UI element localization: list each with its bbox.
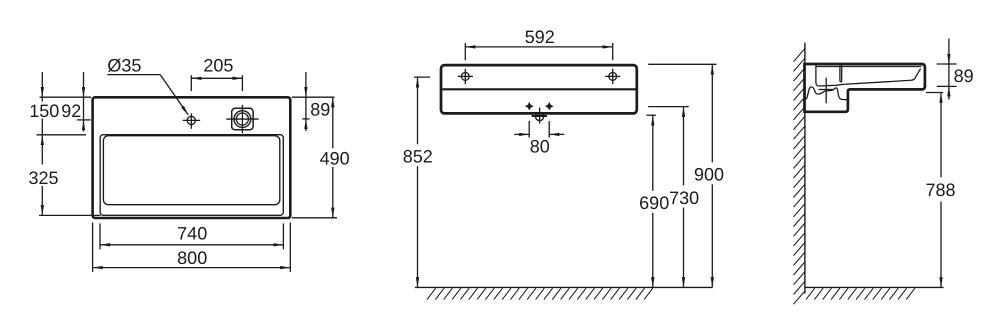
- drain outlet: flange bar, circle and center line: [532, 115, 547, 117]
- dimension 150 (top edge to basin) arrows outside: [41, 72, 43, 97]
- left view: basin floor edge: [103, 136, 279, 205]
- left view: basin rim inner edge: [100, 135, 283, 216]
- dimension 690 (drain above floor): [646, 114, 656, 116]
- dimension 80 (bolt spacing) arrows outside: [528, 121, 530, 138]
- middle view floor line: [415, 286, 713, 288]
- svg-text:788: 788: [925, 180, 955, 200]
- right view: wall hatching: [794, 49, 805, 305]
- middle view: washbasin front elevation outline: [441, 65, 637, 113]
- side profile: basin rim inner line: [816, 66, 921, 68]
- dimension 852 (mounting holes above floor): [414, 76, 430, 78]
- square-fixture-level extension tick (right): [302, 118, 309, 120]
- right view floor line: [804, 286, 943, 288]
- svg-text:80: 80: [530, 136, 550, 156]
- dimension 730 (fixing bolts above floor): [648, 106, 689, 108]
- side profile: underside moulding line: [806, 87, 847, 100]
- svg-text:690: 690: [639, 193, 669, 213]
- left view bottom-edge extension line (right side): [292, 217, 337, 219]
- svg-text:205: 205: [203, 56, 233, 76]
- svg-text:490: 490: [320, 148, 350, 168]
- dimension 89 (top edge to square fixture center) arrows outside: [305, 72, 307, 97]
- svg-text:592: 592: [525, 27, 555, 47]
- svg-text:325: 325: [28, 168, 58, 188]
- svg-text:Ø35: Ø35: [107, 55, 141, 75]
- svg-text:92: 92: [61, 101, 81, 121]
- dimension 490 (overall depth): [332, 97, 334, 148]
- dimension 205 (faucet hole to square fixture): [190, 75, 192, 91]
- faucet-level extension tick (left): [77, 119, 91, 121]
- svg-text:900: 900: [694, 165, 724, 185]
- dimension 800 (overall width): [92, 223, 94, 272]
- left view top-edge extension line (right side): [292, 96, 335, 98]
- fixing bolt diamond right: [546, 103, 552, 109]
- left view top-edge extension line (left side): [40, 96, 92, 98]
- svg-text:730: 730: [669, 188, 699, 208]
- side profile: drain center cross: [825, 78, 827, 104]
- basin-bottom extension line (left): [39, 214, 101, 216]
- mounting hole right with center cross: [609, 73, 617, 81]
- basin-top extension line (left): [37, 134, 87, 136]
- middle view: front apron divider line: [442, 88, 636, 90]
- svg-text:740: 740: [177, 224, 207, 244]
- dimension 788 (underside above floor): [926, 92, 943, 94]
- soap dispenser square fixture with concentric circles and center cross: [232, 108, 253, 130]
- dimension 740 (basin width): [99, 223, 101, 249]
- middle view floor hatching: [427, 288, 653, 299]
- dimension 92 (top edge to faucet center) arrows outside: [83, 72, 85, 97]
- faucet hole (O35) with center cross: [187, 116, 195, 124]
- side profile: basin back wall and floor slope: [816, 65, 921, 86]
- side profile: overflow slot: [840, 65, 842, 82]
- right view: washbasin side profile outline: [805, 64, 925, 112]
- fixing bolt diamond left: [526, 103, 532, 109]
- dimension 89 (apron height) arrows outside: [937, 63, 957, 65]
- mounting hole left with center cross: [461, 73, 469, 81]
- dimension 325 (basin depth): [41, 135, 43, 164]
- left view: washbasin top view, outer rim 800x490: [93, 97, 291, 218]
- svg-text:89: 89: [310, 99, 330, 119]
- dimension 900 (basin top above floor): [648, 63, 716, 65]
- svg-text:150: 150: [29, 101, 59, 121]
- svg-text:89: 89: [954, 66, 974, 86]
- svg-text:852: 852: [403, 146, 433, 166]
- right view floor hatching: [806, 288, 915, 299]
- dimension 592 (mounting hole spacing): [464, 43, 466, 60]
- right view: wall line: [804, 43, 806, 294]
- svg-text:800: 800: [177, 248, 207, 268]
